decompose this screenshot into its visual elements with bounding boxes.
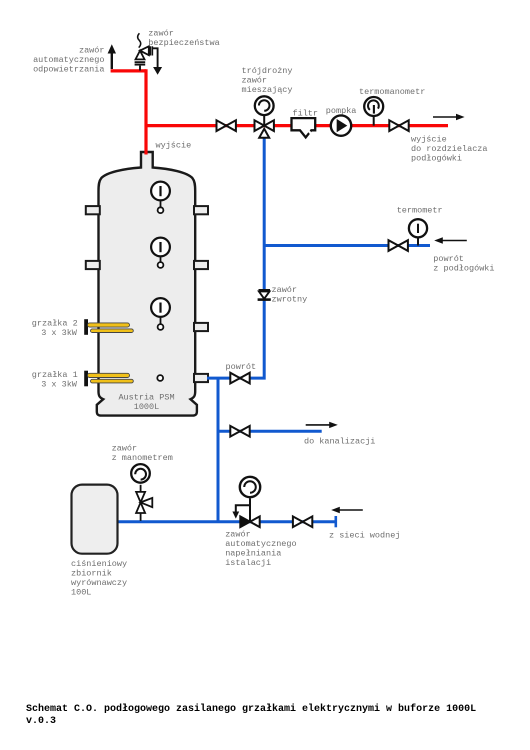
svg-text:automatycznego: automatycznego bbox=[33, 55, 104, 65]
heater grzalka 2 bbox=[84, 319, 133, 335]
valve do kanalizacji bbox=[230, 426, 249, 437]
heater grzalka 1 bbox=[84, 371, 133, 387]
valve V2 on supply bbox=[389, 120, 408, 131]
filter bbox=[292, 118, 316, 137]
svg-text:wyrównawczy: wyrównawczy bbox=[71, 578, 127, 588]
tank stub right row3 bbox=[194, 323, 208, 331]
wire blue: return from floor heating bbox=[264, 244, 430, 247]
svg-text:mieszający: mieszający bbox=[242, 85, 293, 95]
svg-text:powrót: powrót bbox=[433, 254, 464, 264]
wire blue: drop from mixing valve bbox=[207, 130, 264, 378]
svg-text:termomanometr: termomanometr bbox=[359, 87, 425, 97]
tank stub right row4 (powrot) bbox=[194, 374, 208, 382]
thermometer well T2 bbox=[151, 238, 170, 268]
svg-text:automatycznego: automatycznego bbox=[225, 539, 296, 549]
svg-text:z podłogówki: z podłogówki bbox=[433, 264, 494, 274]
svg-text:zawór: zawór bbox=[242, 75, 268, 85]
buffer tank Austria PSM 1000L bbox=[97, 152, 197, 416]
svg-text:wyjście: wyjście bbox=[411, 135, 447, 145]
svg-text:trójdrożny: trójdrożny bbox=[242, 66, 293, 76]
svg-text:termometr: termometr bbox=[397, 206, 443, 216]
svg-text:zwrotny: zwrotny bbox=[272, 295, 308, 305]
svg-text:do kanalizacji: do kanalizacji bbox=[304, 437, 375, 447]
pipe end cap z sieci bbox=[334, 516, 337, 527]
svg-text:powrót: powrót bbox=[226, 362, 257, 372]
tank stub right row2 bbox=[194, 261, 208, 269]
three-way mixing valve bbox=[255, 96, 274, 138]
svg-text:v.0.3: v.0.3 bbox=[26, 716, 56, 727]
svg-text:zawór: zawór bbox=[112, 443, 138, 453]
tank stub left row1 bbox=[86, 206, 100, 214]
svg-text:3 x 3kW: 3 x 3kW bbox=[41, 380, 78, 390]
valve powrot bbox=[230, 373, 249, 384]
air vent arrow bbox=[108, 44, 116, 69]
svg-text:ciśnieniowy: ciśnieniowy bbox=[71, 559, 127, 569]
supply out arrow bbox=[433, 114, 465, 120]
svg-text:pompka: pompka bbox=[326, 106, 357, 116]
svg-text:Schemat C.O. podłogowego zasil: Schemat C.O. podłogowego zasilanego grza… bbox=[26, 703, 476, 715]
svg-text:bezpieczeństwa: bezpieczeństwa bbox=[148, 38, 219, 48]
tank stub left row2 bbox=[86, 261, 100, 269]
kanalizacja arrow bbox=[306, 422, 338, 428]
svg-text:wyjście: wyjście bbox=[156, 141, 192, 151]
safety valve bbox=[135, 33, 163, 75]
expansion vessel bbox=[72, 485, 118, 554]
svg-text:napełniania: napełniania bbox=[225, 548, 281, 558]
sensor pocket row4 bbox=[157, 375, 163, 381]
tank stub right row1 bbox=[194, 206, 208, 214]
thermometer on return bbox=[409, 219, 427, 245]
pump bbox=[331, 115, 351, 135]
wire red: main supply line bbox=[146, 124, 448, 127]
svg-text:podłogówki: podłogówki bbox=[411, 154, 462, 164]
svg-text:grzałka 2: grzałka 2 bbox=[32, 319, 78, 329]
valve V1 on supply bbox=[217, 120, 236, 131]
svg-text:z sieci wodnej: z sieci wodnej bbox=[329, 531, 400, 541]
svg-text:do rozdzielacza: do rozdzielacza bbox=[411, 144, 488, 154]
svg-text:istalacji: istalacji bbox=[225, 558, 271, 568]
svg-text:z manometrem: z manometrem bbox=[112, 453, 173, 463]
check valve zawor zwrotny bbox=[258, 290, 271, 299]
wire blue: drain drop bbox=[217, 378, 220, 522]
valve V3 on return bbox=[389, 240, 408, 251]
svg-text:3 x 3kW: 3 x 3kW bbox=[41, 328, 78, 338]
thermometer well T1 bbox=[151, 182, 170, 214]
svg-text:zawór: zawór bbox=[79, 45, 105, 55]
svg-text:Austria PSM: Austria PSM bbox=[118, 393, 174, 403]
wire red: vertical to tank neck bbox=[144, 69, 147, 154]
valve with manometer bbox=[131, 464, 152, 521]
svg-text:zawór: zawór bbox=[272, 285, 298, 295]
thermo-manometer bbox=[364, 97, 383, 126]
z sieci arrow bbox=[331, 507, 363, 513]
svg-text:100L: 100L bbox=[71, 588, 91, 598]
automatic filling valve bbox=[232, 477, 260, 527]
wire blue: do kanalizacji branch bbox=[218, 430, 322, 433]
return in arrow bbox=[434, 237, 467, 243]
svg-text:grzałka 1: grzałka 1 bbox=[32, 370, 78, 380]
svg-text:odpowietrzania: odpowietrzania bbox=[33, 64, 104, 74]
svg-text:filtr: filtr bbox=[293, 109, 319, 119]
svg-text:zawór: zawór bbox=[225, 529, 251, 539]
thermometer well T3 bbox=[151, 298, 170, 330]
wire blue: bottom fill line bbox=[118, 520, 337, 523]
svg-text:zbiornik: zbiornik bbox=[71, 569, 112, 579]
svg-text:1000L: 1000L bbox=[134, 402, 160, 412]
svg-text:zawór: zawór bbox=[148, 29, 174, 39]
valve z sieci bbox=[293, 516, 312, 527]
wire red: air-vent horizontal bbox=[111, 69, 146, 72]
